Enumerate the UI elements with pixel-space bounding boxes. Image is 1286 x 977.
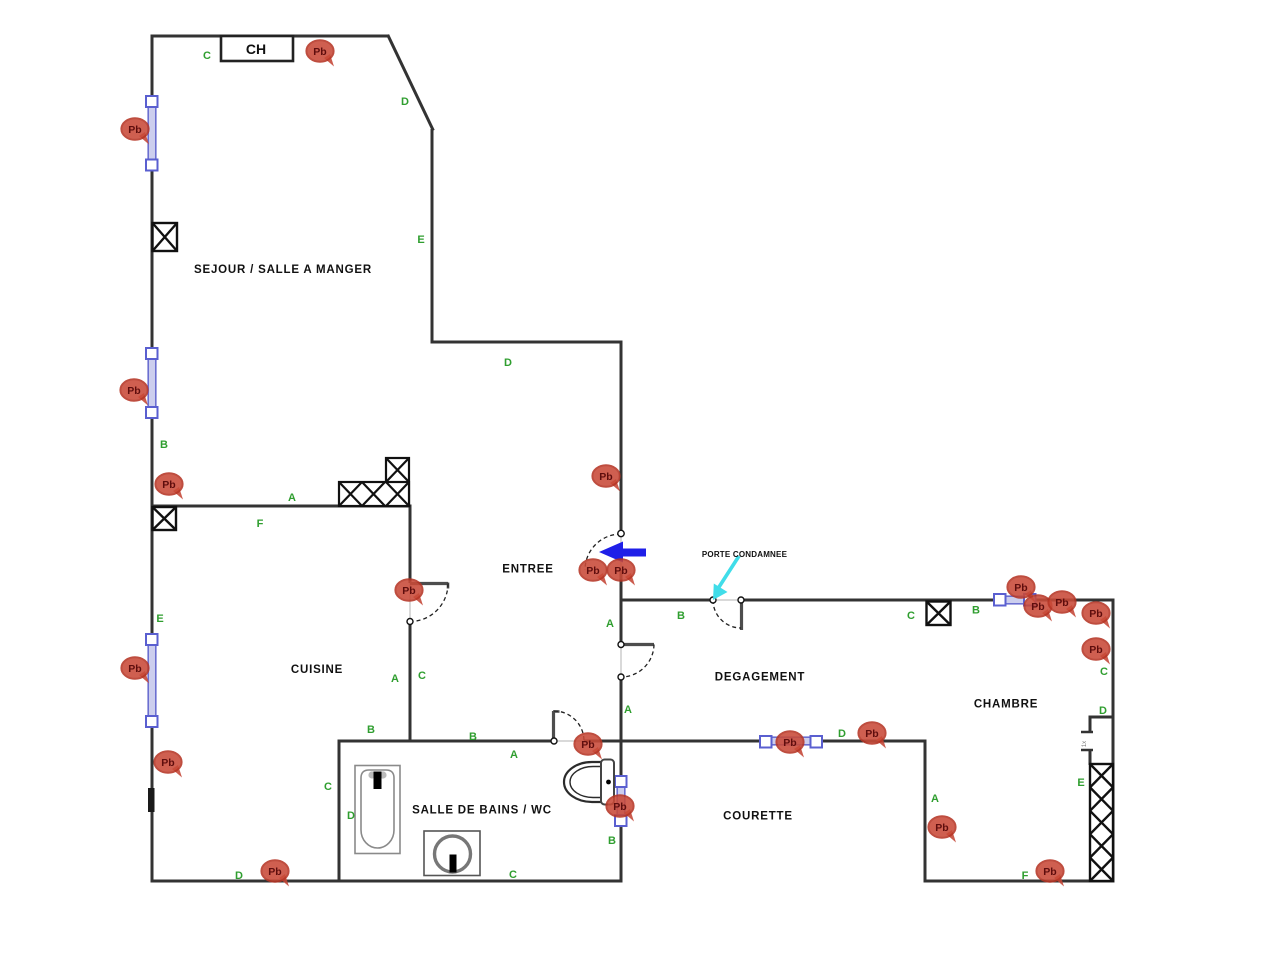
svg-text:C: C <box>907 610 915 622</box>
pb marker bottom wall left <box>261 860 289 886</box>
svg-text:E: E <box>1077 777 1084 789</box>
door bathroom: leaf <box>552 711 555 741</box>
toilet <box>564 760 614 805</box>
gap line entree door <box>620 533 622 570</box>
door cuisine: leaf end tick <box>447 583 450 589</box>
wall bathroom top right of door <box>584 740 623 743</box>
door bathroom: hinge circle <box>551 738 557 744</box>
pb marker cuisine door <box>395 579 423 605</box>
pb marker top CH <box>306 40 334 66</box>
bathtub faucet <box>368 771 386 789</box>
wall horizontal y=342 <box>431 341 623 344</box>
svg-text:C: C <box>1100 666 1108 678</box>
svg-text:A: A <box>288 492 296 504</box>
wall x=621: seg 677-776 <box>620 677 623 776</box>
svg-text:PORTE CONDAMNEE: PORTE CONDAMNEE <box>702 550 788 559</box>
door porte condamnee: leaf <box>740 600 743 630</box>
hatch box degagement wall <box>927 602 951 626</box>
wall niche left lower <box>1089 750 1092 765</box>
gap line degagement door <box>620 644 622 677</box>
wall left: seg 170-348 <box>151 170 154 348</box>
svg-text:B: B <box>160 439 168 451</box>
svg-text:C: C <box>509 869 517 881</box>
door porte condamnee: arc <box>713 600 741 628</box>
wall top (sejour) <box>151 35 390 38</box>
svg-text:C: C <box>203 50 211 62</box>
pb marker courette bottom F <box>1036 860 1064 886</box>
wall cuisine top <box>152 505 412 508</box>
window sejour-1 left wall <box>146 96 158 171</box>
wall degagement top left part <box>620 599 714 602</box>
window courette top wall <box>760 736 822 748</box>
cyan arrow porte condamnee <box>713 556 739 600</box>
pb marker bathroom window <box>606 795 634 821</box>
svg-text:F: F <box>257 518 264 530</box>
svg-text:E: E <box>156 613 163 625</box>
svg-text:DEGAGEMENT: DEGAGEMENT <box>715 672 805 684</box>
wall niche top <box>1090 716 1113 719</box>
wall cuisine right upper <box>409 506 412 583</box>
pb marker left wall low <box>154 751 182 777</box>
pb marker courette right wall <box>928 816 956 842</box>
door cuisine: hinge circle <box>407 619 413 625</box>
washbasin <box>424 831 480 876</box>
svg-text:SALLE DE BAINS / WC: SALLE DE BAINS / WC <box>412 805 552 817</box>
wall entree vertical upper <box>620 342 623 533</box>
gap line cuisine door <box>409 583 411 622</box>
door entree: hinge circle <box>618 530 624 536</box>
wall x=621: seg 826-881 <box>620 826 623 883</box>
gap line porte condamnee <box>713 599 741 601</box>
wall courette right <box>924 740 927 883</box>
pb marker entree door left <box>579 559 607 585</box>
hatch box cuisine left wall <box>153 507 177 530</box>
door degagement: circle top <box>618 642 624 648</box>
svg-text:B: B <box>677 610 685 622</box>
door porte condamnee: circle left <box>710 597 716 603</box>
svg-text:E: E <box>417 234 424 246</box>
wall left: seg 418-634 <box>151 418 154 634</box>
svg-text:B: B <box>469 731 477 743</box>
wall niche tick upper <box>1081 731 1093 734</box>
wall niche left upper <box>1089 716 1092 733</box>
door degagement: arc <box>621 645 654 678</box>
wall courette top: window gap 760-822 <box>621 740 760 743</box>
wall cuisine right lower <box>409 622 412 742</box>
hatch column chambre right <box>1090 764 1113 881</box>
svg-text:ENTREE: ENTREE <box>502 564 553 576</box>
svg-text:F: F <box>1022 870 1029 882</box>
door cuisine: arc <box>410 584 448 622</box>
pb marker chambre window right <box>1024 595 1052 621</box>
wall niche tick lower <box>1081 749 1093 752</box>
door cuisine: leaf <box>410 582 448 585</box>
bathtub <box>355 766 400 854</box>
wall diagonal top-right <box>388 35 434 131</box>
svg-text:B: B <box>367 724 375 736</box>
pb marker bathroom door <box>574 733 602 759</box>
pb marker entree door right <box>607 559 635 585</box>
door porte condamnee: circle right <box>738 597 744 603</box>
wall bottom right (courette) <box>924 880 1115 883</box>
wall x=621: seg 600-644 <box>620 600 623 644</box>
window cuisine left wall <box>146 634 158 727</box>
svg-text:SEJOUR / SALLE A MANGER: SEJOUR / SALLE A MANGER <box>194 264 372 276</box>
door degagement: leaf <box>621 643 654 646</box>
pb marker left window1 <box>121 118 149 144</box>
pb marker entree wall <box>592 465 620 491</box>
svg-text:CHAMBRE: CHAMBRE <box>974 699 1038 711</box>
blue entry arrow <box>599 542 646 563</box>
hatch box sejour left wall <box>153 223 178 251</box>
svg-text:1x: 1x <box>1082 741 1088 747</box>
svg-text:COURETTE: COURETTE <box>723 811 793 823</box>
svg-text:A: A <box>606 618 614 630</box>
wall bathroom left <box>338 740 341 883</box>
window chambre top wall <box>994 594 1036 606</box>
svg-text:A: A <box>510 749 518 761</box>
svg-text:A: A <box>931 793 939 805</box>
pb marker chambre right wall <box>1082 638 1110 664</box>
svg-text:B: B <box>972 605 980 617</box>
pb marker left window3 <box>121 657 149 683</box>
svg-text:D: D <box>504 357 512 369</box>
pb marker chambre window top <box>1007 576 1035 602</box>
svg-text:D: D <box>235 870 243 882</box>
svg-text:B: B <box>608 835 616 847</box>
pb marker courette window <box>776 731 804 757</box>
pb marker cuisine wall left <box>155 473 183 499</box>
wall left: seg 727-881 <box>151 727 154 883</box>
svg-text:A: A <box>624 704 632 716</box>
pb marker chambre corner <box>1082 602 1110 628</box>
svg-text:C: C <box>324 781 332 793</box>
pb marker courette wall D <box>858 722 886 748</box>
wall bathroom top left of door <box>338 740 555 743</box>
svg-text:D: D <box>1099 705 1107 717</box>
wall degagement top right part <box>741 599 1115 602</box>
CH chimney box <box>221 36 293 61</box>
wall entree vertical lower stub <box>620 570 623 602</box>
svg-text:D: D <box>347 810 355 822</box>
door bathroom: leaf end tick <box>553 710 560 713</box>
pb marker left window2 <box>120 379 148 405</box>
svg-text:C: C <box>418 670 426 682</box>
svg-text:D: D <box>401 96 409 108</box>
wall chambre right <box>1112 599 1115 882</box>
window sejour-2 left wall <box>146 348 158 418</box>
wall left: seg 36-96 <box>151 35 154 97</box>
window bathroom right wall <box>615 776 627 826</box>
svg-text:D: D <box>838 728 846 740</box>
svg-text:CH: CH <box>246 41 266 57</box>
door bathroom: arc <box>554 711 584 741</box>
door degagement: circle bottom <box>618 674 624 680</box>
pb marker chambre wall <box>1048 591 1076 617</box>
gap line bathroom door <box>554 740 584 742</box>
wall east sejour vertical <box>431 129 434 344</box>
hatch L-shape cuisine corner <box>339 458 409 506</box>
wall bottom (main) <box>151 880 623 883</box>
svg-text:CUISINE: CUISINE <box>291 664 343 676</box>
radiator mark on left wall <box>148 788 155 812</box>
svg-text:A: A <box>391 673 399 685</box>
door entree: arc <box>585 534 621 570</box>
